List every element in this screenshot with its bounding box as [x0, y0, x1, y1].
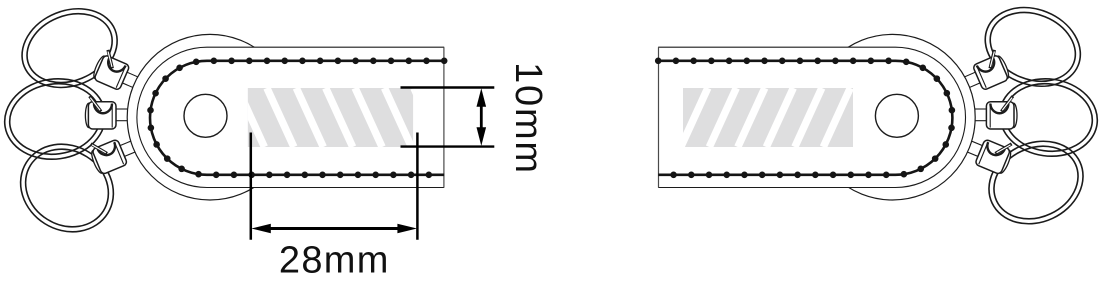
svg-text:10mm: 10mm: [507, 62, 549, 175]
svg-text:28mm: 28mm: [279, 240, 390, 282]
